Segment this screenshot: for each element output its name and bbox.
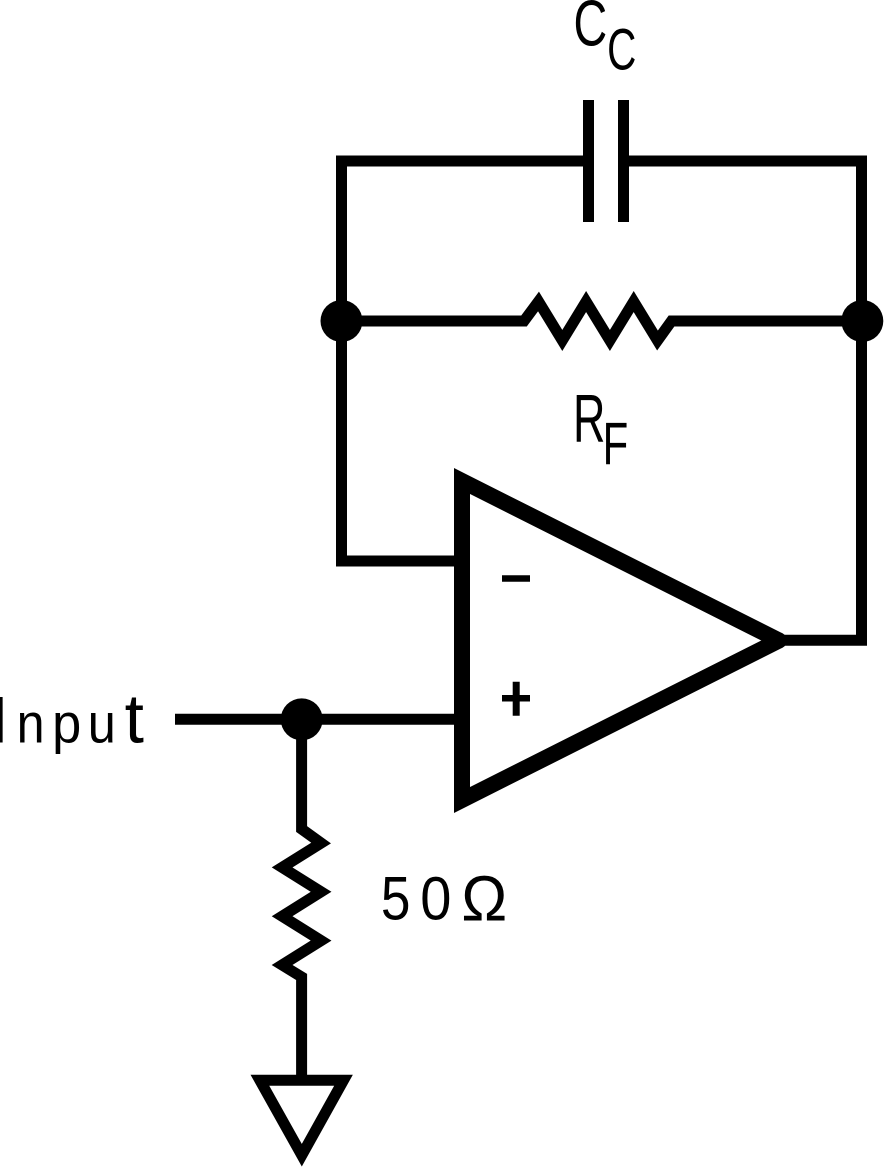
- svg-text:n: n: [17, 693, 45, 755]
- svg-text:C: C: [573, 0, 607, 59]
- svg-text:p: p: [52, 693, 81, 755]
- svg-text:Ω: Ω: [461, 863, 507, 935]
- node junction dot on input wire: [281, 698, 323, 740]
- node junction dot right of RF: [841, 300, 883, 342]
- op-amp U1 triangle: [462, 481, 787, 800]
- svg-text:t: t: [125, 679, 144, 757]
- svg-text:0: 0: [420, 865, 451, 933]
- wire: from capacitor right plate along top and down right side to op-amp output: [629, 161, 862, 640]
- svg-text:R: R: [573, 382, 605, 457]
- wire: down from input node through 50 ohm resistor zigzag to ground: [282, 719, 321, 1080]
- ground symbol: [260, 1080, 344, 1155]
- resistor value label 50 ohm: [381, 863, 507, 935]
- wire: input to non-inverting input: [175, 714, 462, 725]
- svg-text:5: 5: [381, 865, 411, 933]
- svg-text:F: F: [603, 410, 629, 477]
- node junction dot left of RF: [321, 300, 363, 342]
- wire: inverting input branch up left side and along top to capacitor left plate: [342, 161, 584, 561]
- capacitor CC left plate: [583, 100, 594, 222]
- op-amp non-inverting input marker (plus): [502, 682, 530, 716]
- capacitor label CC: [573, 0, 636, 82]
- resistor RF label: [573, 382, 628, 477]
- svg-text:u: u: [88, 693, 116, 755]
- capacitor CC right plate: [618, 100, 629, 222]
- svg-text:I: I: [0, 684, 8, 757]
- svg-text:C: C: [607, 17, 636, 82]
- wire: feedback branch with resistor RF zigzag: [342, 302, 863, 341]
- Input label: [0, 679, 144, 757]
- op-amp inverting input marker (minus): [502, 575, 530, 582]
